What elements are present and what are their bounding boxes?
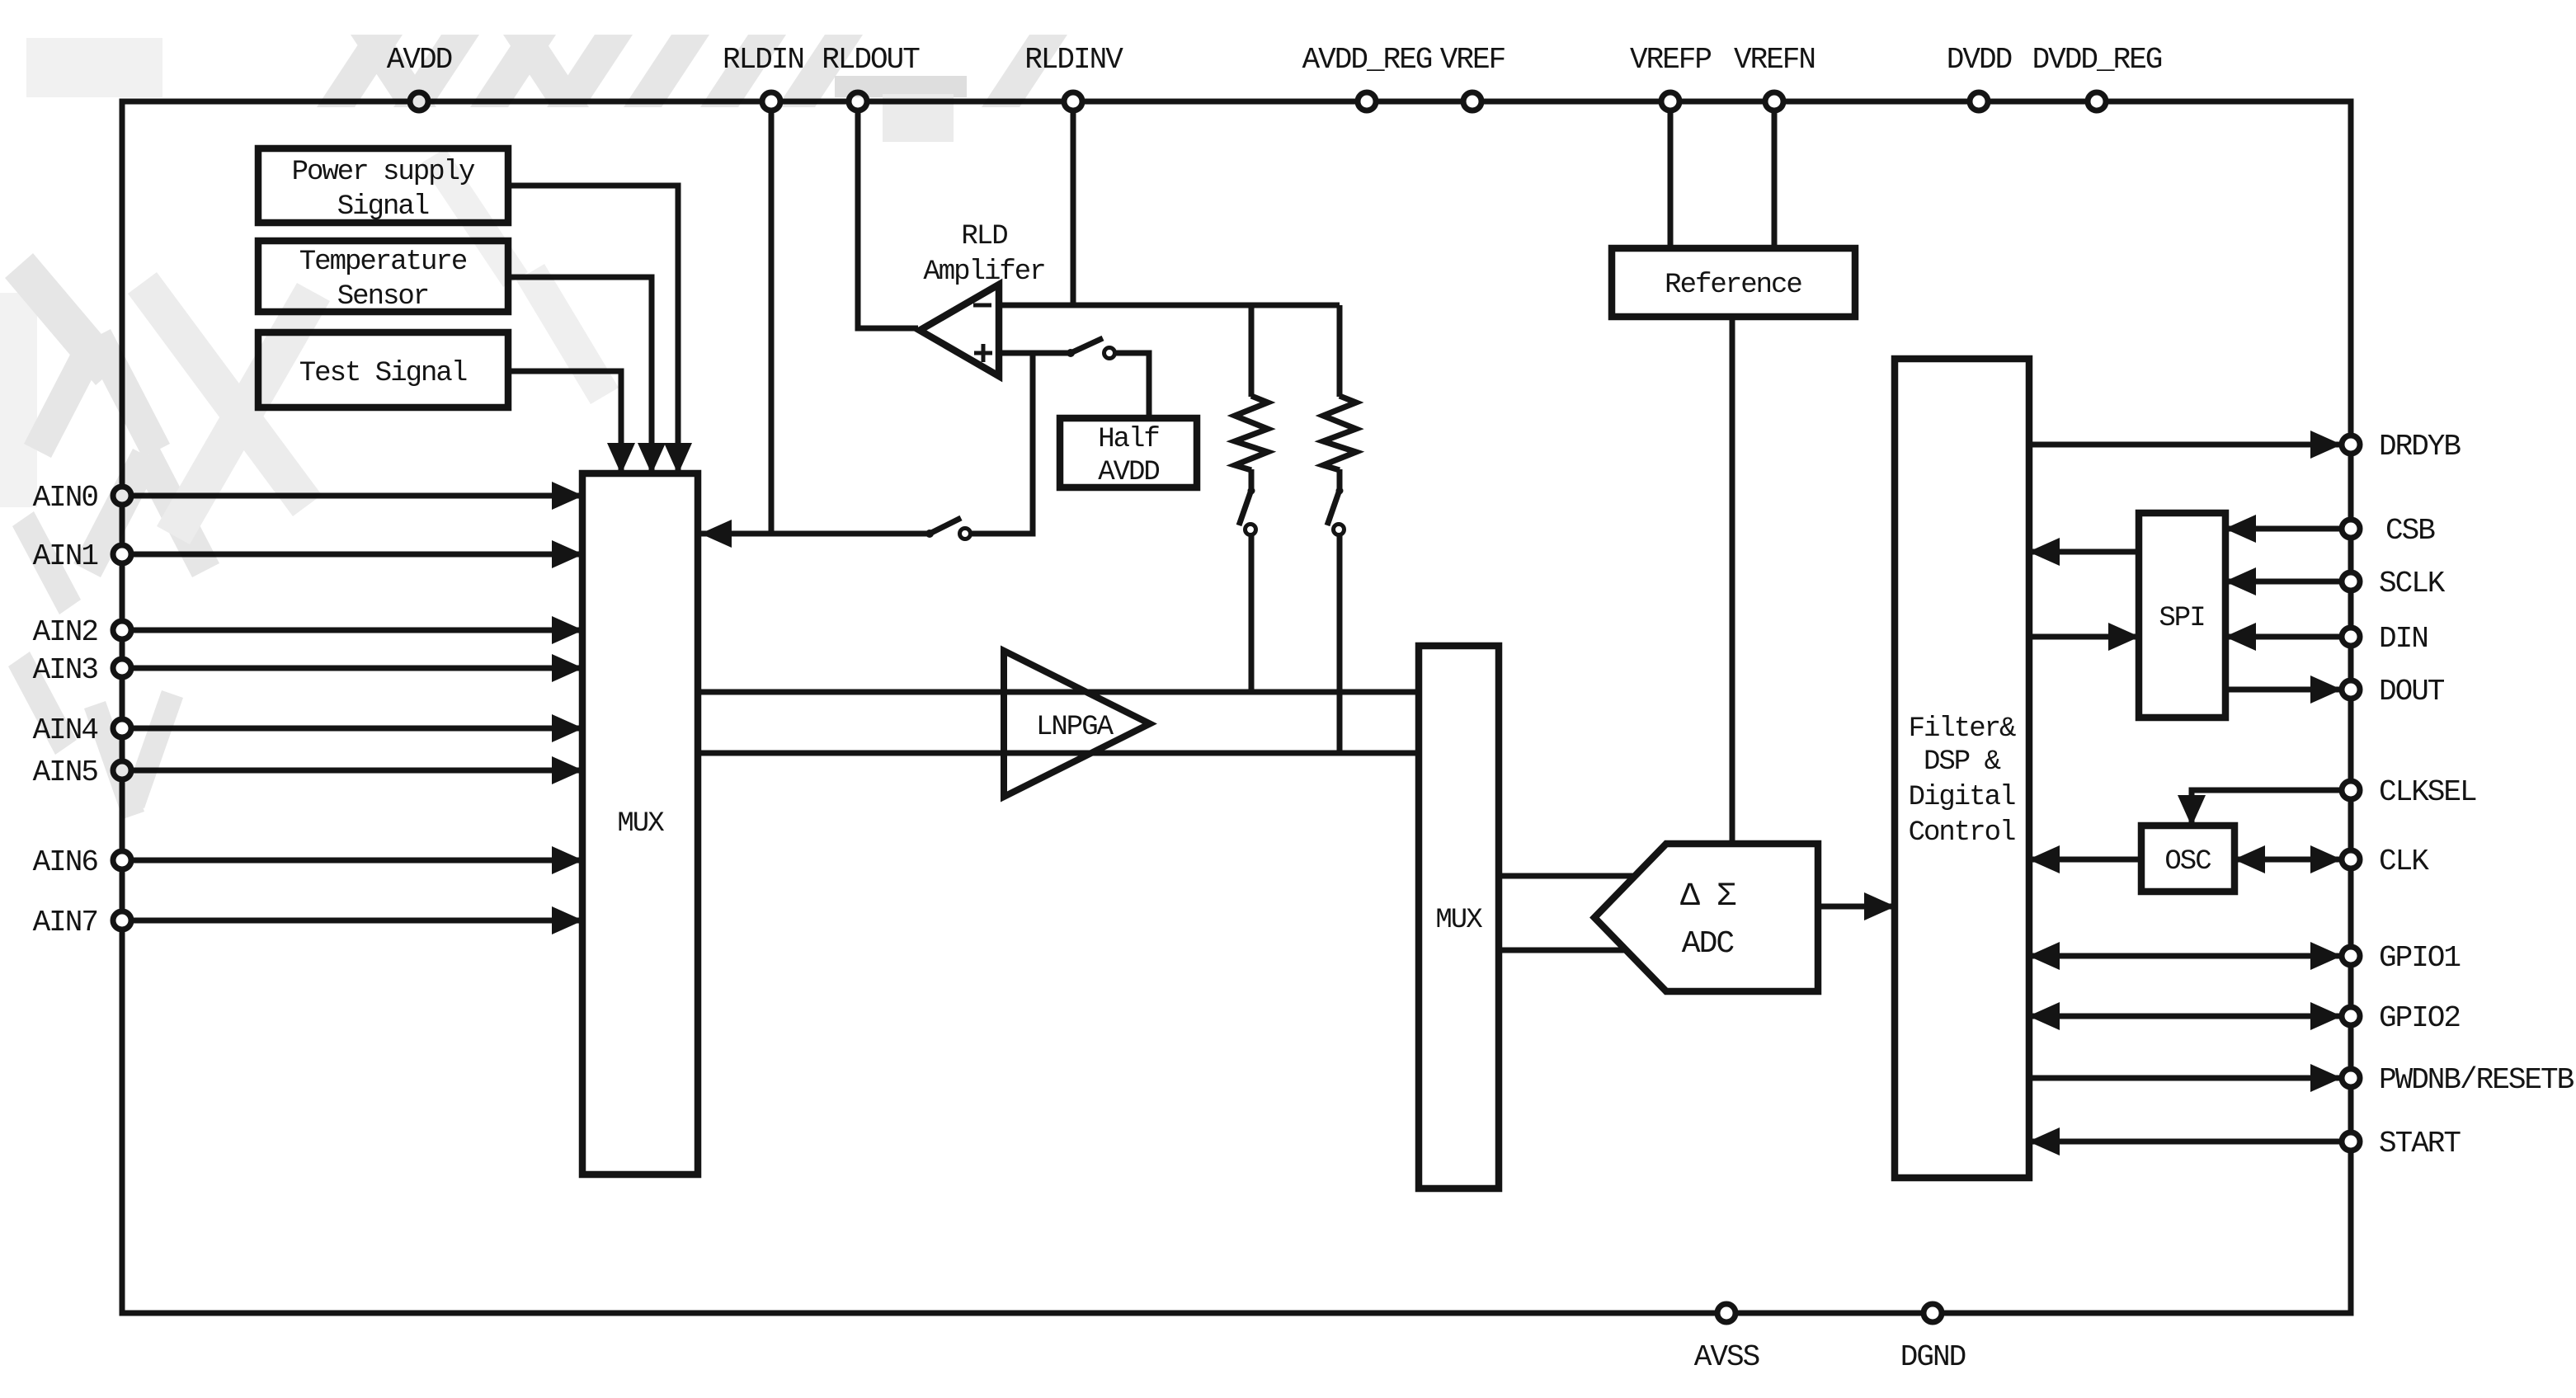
svg-text:Amplifer: Amplifer [923, 257, 1044, 288]
svg-text:SPI: SPI [2159, 603, 2204, 634]
svg-text:OSC: OSC [2164, 846, 2211, 878]
svg-text:LNPGA: LNPGA [1036, 712, 1114, 743]
svg-text:Sensor: Sensor [337, 281, 428, 313]
svg-text:Filter&: Filter& [1909, 713, 2016, 745]
svg-text:Control: Control [1909, 817, 2015, 849]
svg-text:Half: Half [1098, 424, 1159, 455]
svg-text:PWDNB/RESETB: PWDNB/RESETB [2379, 1063, 2574, 1097]
svg-text:RLD: RLD [961, 221, 1007, 252]
svg-text:START: START [2379, 1127, 2461, 1160]
svg-text:Reference: Reference [1665, 270, 1801, 301]
svg-text:AVDD: AVDD [1098, 457, 1159, 488]
svg-text:MUX: MUX [617, 808, 664, 840]
svg-text:SCLK: SCLK [2379, 567, 2446, 600]
svg-text:AIN7: AIN7 [33, 906, 97, 939]
svg-text:VREF: VREF [1440, 43, 1505, 77]
svg-text:AIN2: AIN2 [33, 615, 98, 649]
svg-text:CLK: CLK [2379, 845, 2429, 878]
svg-text:DOUT: DOUT [2379, 675, 2445, 708]
svg-text:AIN5: AIN5 [33, 755, 98, 789]
svg-text:GPIO1: GPIO1 [2379, 941, 2460, 975]
svg-text:CSB: CSB [2385, 514, 2435, 548]
svg-text:DIN: DIN [2379, 622, 2428, 656]
svg-text:Δ Σ: Δ Σ [1680, 878, 1736, 916]
svg-text:MUX: MUX [1435, 905, 1482, 936]
svg-text:DRDYB: DRDYB [2379, 430, 2461, 464]
svg-text:AIN0: AIN0 [33, 481, 98, 515]
svg-text:Signal: Signal [337, 191, 429, 223]
svg-text:Test Signal: Test Signal [299, 358, 467, 389]
svg-text:ADC: ADC [1682, 926, 1735, 962]
svg-text:DSP &: DSP & [1924, 746, 2001, 778]
svg-text:DVDD_REG: DVDD_REG [2032, 43, 2162, 77]
svg-text:Digital: Digital [1909, 782, 2015, 813]
svg-text:DVDD: DVDD [1947, 43, 2012, 77]
svg-text:GPIO2: GPIO2 [2379, 1001, 2460, 1035]
svg-text:AVSS: AVSS [1694, 1340, 1759, 1374]
svg-text:Temperature: Temperature [299, 247, 467, 278]
svg-text:CLKSEL: CLKSEL [2379, 775, 2476, 809]
svg-text:VREFN: VREFN [1734, 43, 1815, 77]
svg-text:VREFP: VREFP [1630, 43, 1711, 77]
svg-text:AVDD_REG: AVDD_REG [1302, 43, 1432, 77]
svg-text:DGND: DGND [1900, 1340, 1966, 1374]
svg-text:AIN6: AIN6 [33, 845, 98, 879]
